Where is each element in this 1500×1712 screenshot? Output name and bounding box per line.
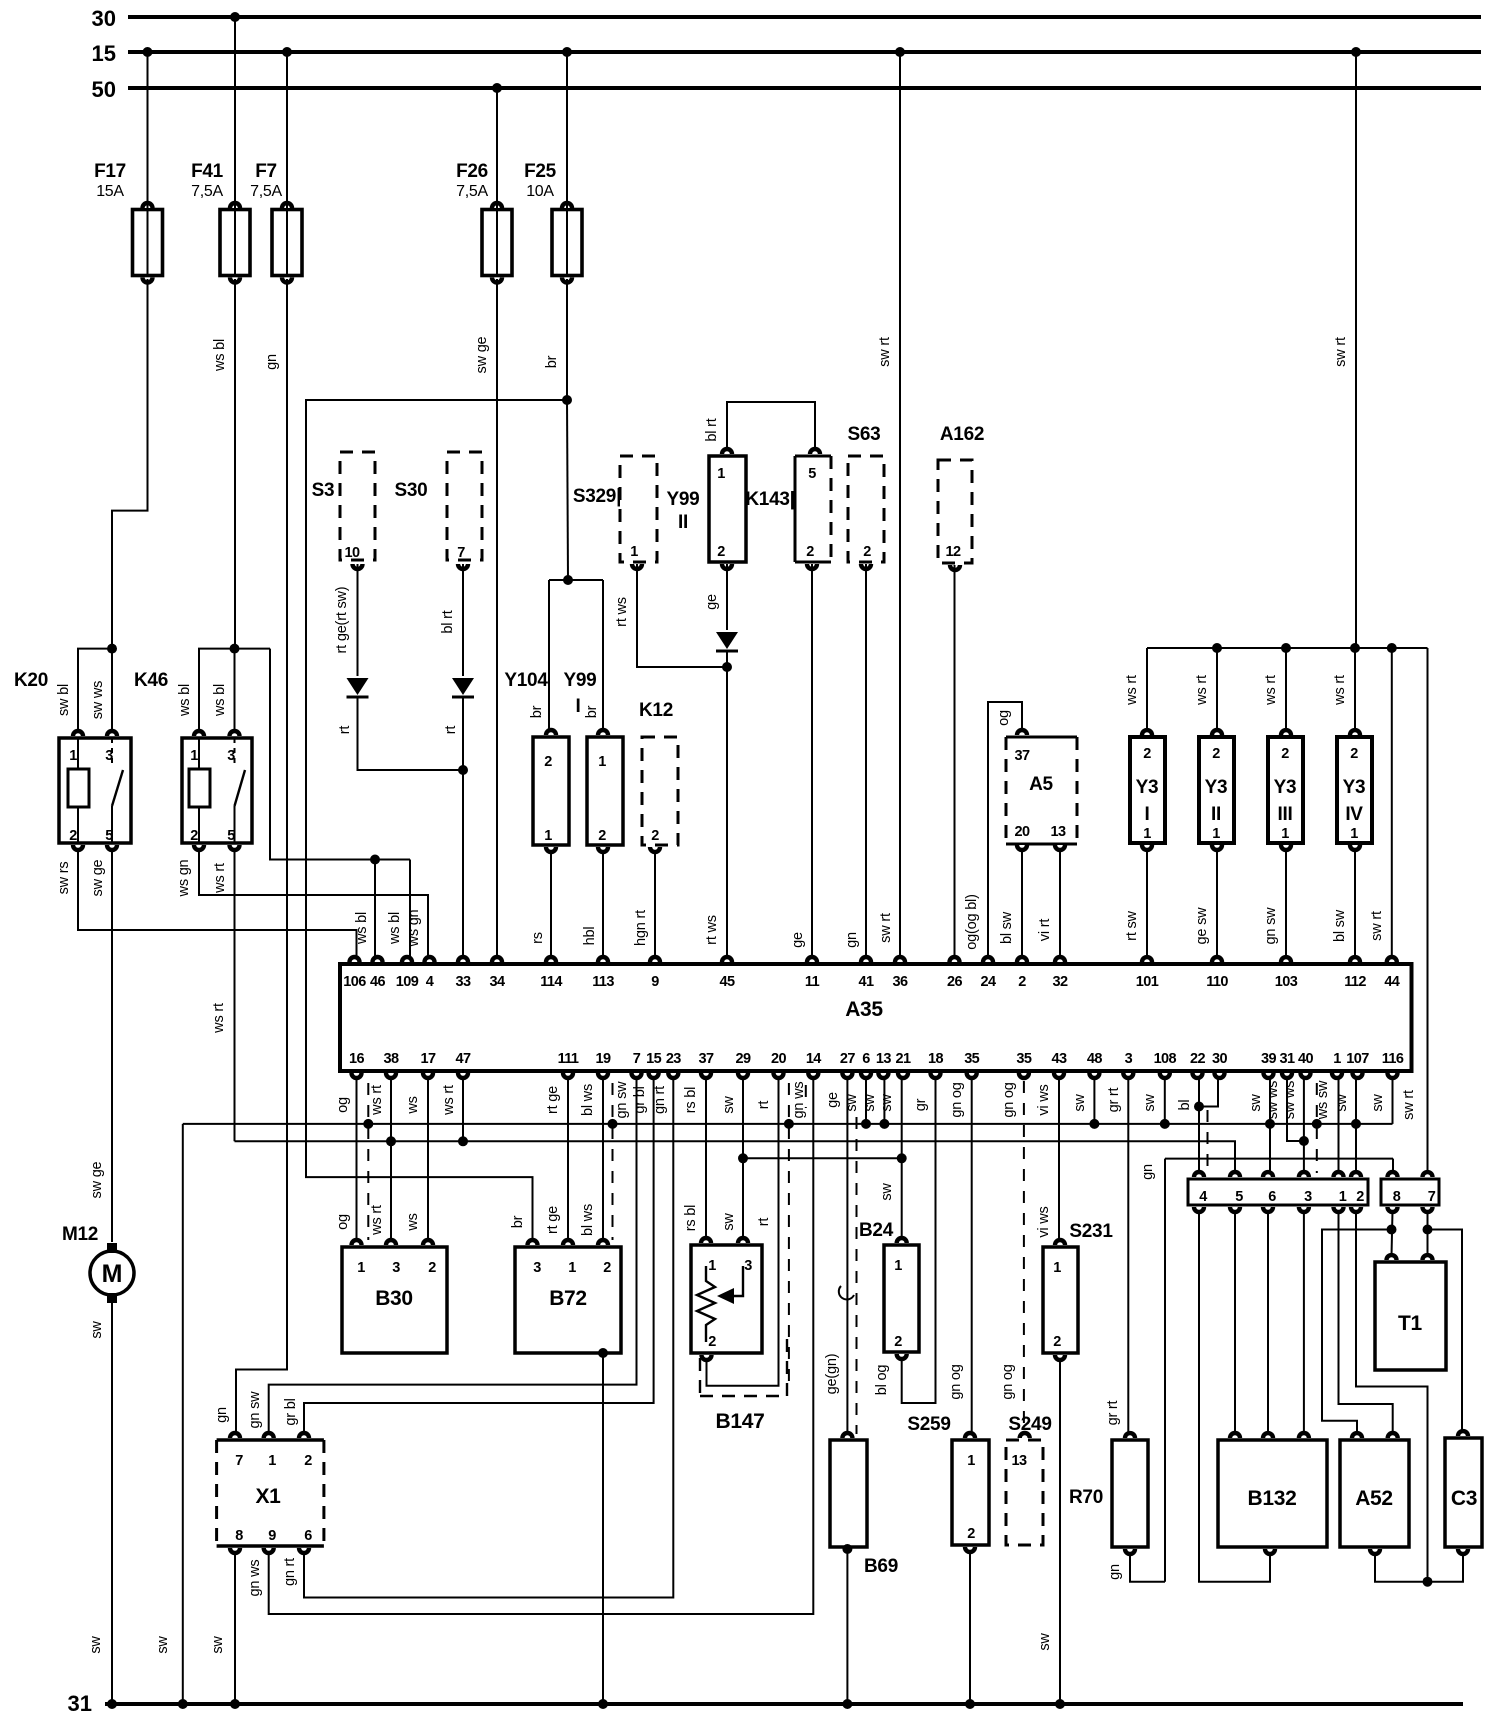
diode on S30 wire: [452, 678, 474, 695]
svg-text:sw bl: sw bl: [56, 684, 72, 716]
svg-text:hgn rt: hgn rt: [633, 910, 649, 946]
svg-text:gr rt: gr rt: [1105, 1400, 1121, 1425]
A35 bottom pin 27: [840, 1073, 854, 1080]
svg-text:45: 45: [720, 974, 735, 990]
svg-text:sw: sw: [1142, 1094, 1158, 1112]
svg-text:S30: S30: [395, 480, 428, 501]
node A52/C3 bottom junction: [1423, 1577, 1433, 1587]
svg-text:6: 6: [304, 1528, 312, 1544]
svg-text:23: 23: [666, 1051, 681, 1067]
svg-text:32: 32: [1053, 974, 1068, 990]
A35 bottom pin 1: [1330, 1073, 1344, 1080]
wire gn left drop to R70 bottom: [1164, 1159, 1166, 1582]
svg-text:20: 20: [771, 1051, 786, 1067]
wire S259 pin 2 to bus 31: [969, 1551, 971, 1704]
svg-text:gn ws: gn ws: [791, 1082, 807, 1119]
svg-text:5: 5: [1235, 1189, 1243, 1205]
A35 top pin 11: [805, 955, 819, 962]
svg-text:7: 7: [633, 1051, 641, 1067]
wire branch to A52 left pin: [1322, 1230, 1392, 1435]
svg-text:2: 2: [603, 1260, 611, 1276]
wire sw rt to A35 pin 44: [1391, 648, 1393, 958]
A35 top pin 24: [981, 955, 995, 962]
svg-text:9: 9: [268, 1528, 276, 1544]
bus 31: [105, 1702, 1463, 1706]
svg-text:1: 1: [717, 466, 725, 482]
svg-text:B69: B69: [864, 1556, 898, 1577]
svg-text:13: 13: [1051, 824, 1066, 840]
wire A35 pin 108 to sw rail: [1164, 1077, 1166, 1128]
A35 top pin 2: [1015, 955, 1029, 962]
svg-text:sw: sw: [1334, 1094, 1350, 1112]
svg-text:gn: gn: [264, 354, 280, 370]
svg-text:ws rt: ws rt: [369, 1085, 385, 1116]
capacitor C3: [1445, 1438, 1482, 1547]
svg-text:108: 108: [1154, 1051, 1177, 1067]
svg-text:rt ws: rt ws: [704, 915, 720, 945]
wire bracket to Y99I pin 1 (br): [568, 579, 603, 581]
K46 top bracket (ws bl): [199, 649, 270, 732]
wire A5 pin 37 to A35 pin 24 (og): [988, 702, 1022, 958]
svg-text:35: 35: [964, 1051, 979, 1067]
valve Y3 IV: [1337, 737, 1372, 843]
svg-text:A35: A35: [845, 998, 883, 1021]
svg-text:rt: rt: [337, 726, 353, 735]
svg-text:II: II: [678, 512, 688, 533]
svg-text:ge(gn): ge(gn): [824, 1354, 840, 1395]
svg-text:sw: sw: [879, 1094, 895, 1112]
wire K143 pin 2 to A35 pin 11 (ge): [811, 564, 813, 958]
svg-text:gr: gr: [913, 1098, 929, 1111]
svg-text:Y3: Y3: [1343, 777, 1366, 798]
svg-text:vi rt: vi rt: [1037, 919, 1053, 942]
svg-text:30: 30: [92, 6, 116, 31]
bus 50: [128, 86, 1481, 90]
svg-text:br: br: [529, 705, 545, 718]
svg-text:33: 33: [456, 974, 471, 990]
svg-text:rt ge: rt ge: [545, 1086, 561, 1114]
svg-text:C3: C3: [1451, 1487, 1477, 1510]
wire connector pin 1 to A52 right pin: [1339, 1211, 1393, 1434]
wire Y104 pin 1 to A35 pin 114 (rs): [550, 851, 552, 958]
wire B69 bottom to bus 31: [842, 1544, 852, 1554]
wire A35 pin 43 to S231 pin 1 (vi ws): [1058, 1077, 1060, 1241]
svg-text:B24: B24: [859, 1220, 894, 1241]
resistor R70: [1112, 1440, 1148, 1547]
A35 bottom pin 35: [1017, 1073, 1031, 1080]
svg-text:ws: ws: [405, 1096, 421, 1114]
A35 bottom pin 47: [456, 1073, 470, 1080]
svg-text:br: br: [544, 355, 560, 368]
switch S231: [1043, 1247, 1078, 1353]
svg-text:ws rt: ws rt: [441, 1085, 457, 1116]
svg-text:rt ge(rt sw): rt ge(rt sw): [334, 587, 350, 654]
A35 bottom pin 7: [629, 1073, 643, 1080]
svg-text:1: 1: [1053, 1260, 1061, 1276]
wire through fuse F26: [496, 210, 498, 276]
wire A35 pin 40 to connector pin 3 (sw ws): [1303, 1077, 1305, 1173]
svg-text:10: 10: [345, 545, 360, 561]
potentiometer B147: [691, 1245, 762, 1353]
A35 top pin 44: [1385, 955, 1399, 962]
wire Y3 I pin 2 (ws rt): [1146, 648, 1148, 731]
connector strip pins 8 7: [1381, 1179, 1439, 1205]
svg-text:21: 21: [896, 1051, 911, 1067]
svg-text:A5: A5: [1029, 774, 1053, 795]
wire Y3 IV pin 2 (ws rt): [1354, 648, 1356, 731]
svg-text:sw: sw: [88, 1636, 104, 1654]
svg-text:26: 26: [947, 974, 962, 990]
svg-text:41: 41: [859, 974, 874, 990]
unit A162: [938, 460, 972, 563]
A35 bottom pin 48: [1087, 1073, 1101, 1080]
svg-text:sw: sw: [210, 1636, 226, 1654]
wire A35 pin 27 to B69 (ge(gn)): [846, 1077, 848, 1434]
svg-text:sw ge: sw ge: [90, 859, 106, 896]
svg-text:4: 4: [426, 974, 434, 990]
wire K20 pin 2 to A35 pin 106 (sw rs): [78, 849, 357, 958]
svg-text:ge sw: ge sw: [1194, 907, 1210, 945]
wire F17 to K20: [112, 279, 148, 649]
svg-text:15: 15: [646, 1051, 661, 1067]
wire Y3 II pin 2 (ws rt): [1216, 648, 1218, 731]
wire A35 pin 48 to sw rail: [1093, 1077, 1095, 1128]
svg-text:og: og: [335, 1214, 351, 1230]
svg-text:2: 2: [1281, 746, 1289, 762]
svg-text:sw rt: sw rt: [878, 913, 894, 943]
svg-text:1: 1: [967, 1453, 975, 1469]
wire connector pin 6 to B132 pin middle: [1267, 1211, 1269, 1434]
wire A35 pin 7 to X1 pin 1 (gn sw): [269, 1077, 637, 1434]
sensor B30: [342, 1247, 447, 1353]
svg-text:2: 2: [1143, 746, 1151, 762]
wire br to Y104/Y99I bracket: [567, 400, 568, 580]
A35 top pin 9: [648, 955, 662, 962]
svg-text:vi ws: vi ws: [1036, 1084, 1052, 1115]
wire through fuse F41: [234, 210, 236, 276]
A35 bottom pin 35: [965, 1073, 979, 1080]
wire B72 bottom to bus 31: [598, 1348, 608, 1358]
svg-text:Y3: Y3: [1205, 777, 1228, 798]
svg-text:F26: F26: [456, 161, 488, 182]
wire to connector pin 7 (sw rt): [1427, 648, 1429, 1173]
svg-text:rt ge: rt ge: [545, 1206, 561, 1234]
svg-text:2: 2: [428, 1260, 436, 1276]
svg-text:2: 2: [1053, 1334, 1061, 1350]
svg-text:S63: S63: [848, 424, 881, 445]
A35 bottom pin 107: [1350, 1073, 1364, 1080]
svg-text:S329|: S329|: [573, 486, 621, 507]
rail sw short (B147/B24): [743, 1157, 902, 1159]
svg-text:47: 47: [456, 1051, 471, 1067]
svg-text:6: 6: [862, 1051, 870, 1067]
wire gn right drop to connector pin 8: [1392, 1159, 1394, 1173]
svg-text:17: 17: [421, 1051, 436, 1067]
svg-text:F7: F7: [255, 161, 277, 182]
connector pin 1: [1331, 1170, 1345, 1177]
A35 top pin 46: [370, 955, 384, 962]
wire F17 from bus 15: [147, 52, 149, 209]
svg-text:bl sw: bl sw: [1332, 909, 1348, 942]
connector pin 8: [1385, 1170, 1399, 1177]
A35 bottom pin 40: [1298, 1073, 1312, 1080]
svg-text:gn: gn: [214, 1407, 230, 1423]
diode on S3 wire: [347, 678, 369, 695]
A35 bottom pin 22: [1190, 1073, 1204, 1080]
svg-text:2: 2: [863, 544, 871, 560]
A35 top pin 36: [893, 955, 907, 962]
svg-text:1: 1: [1143, 826, 1151, 842]
svg-text:13: 13: [1012, 1453, 1027, 1469]
svg-text:16: 16: [349, 1051, 364, 1067]
A35 top pin 114: [544, 955, 558, 962]
svg-text:Y99: Y99: [564, 670, 597, 691]
A35 bottom pin 16: [349, 1073, 363, 1080]
svg-text:44: 44: [1384, 974, 1399, 990]
svg-text:103: 103: [1275, 974, 1298, 990]
svg-text:3: 3: [392, 1260, 400, 1276]
wire variant dashed at pin 27: [856, 1117, 858, 1434]
wire A35 pin 31 jog (sw ws): [1287, 1077, 1304, 1141]
svg-text:31: 31: [1280, 1051, 1295, 1067]
wire A35 pin 38 to B30 pin 3 (ws rt): [390, 1077, 392, 1241]
svg-text:II: II: [1211, 804, 1221, 825]
wire A35 pin 19 to B72 pin 2 (bl ws): [602, 1077, 604, 1241]
A35 top pin 112: [1348, 955, 1362, 962]
svg-text:ws bl: ws bl: [387, 912, 403, 945]
svg-text:B72: B72: [549, 1287, 587, 1310]
wire bracket to Y104 pin 2 (br): [549, 579, 568, 581]
A35 bottom pin 23: [666, 1073, 680, 1080]
wire A35 pin 29 to B147 pin 3 (sw): [742, 1077, 744, 1239]
svg-text:A162: A162: [940, 424, 984, 445]
wire A35 pin 1 to connector pin 1: [1338, 1077, 1340, 1173]
svg-text:ws rt: ws rt: [369, 1205, 385, 1236]
wire K46 pin 2 to A35 pin 4 (ws gn): [199, 849, 428, 958]
A35 top pin 33: [456, 955, 470, 962]
A35 bottom pin 19: [596, 1073, 610, 1080]
control unit A5: [1006, 736, 1077, 739]
svg-text:ws rt: ws rt: [211, 1003, 227, 1034]
valve Y104: [533, 737, 569, 845]
A35 top pin 4: [422, 955, 436, 962]
A35 bottom pin 15: [646, 1073, 660, 1080]
svg-text:1: 1: [598, 754, 606, 770]
wire A35 pin 107 to connector pin 2 (sw): [1355, 1077, 1357, 1173]
wire F25 from bus 15: [566, 52, 568, 209]
svg-text:br: br: [584, 705, 600, 718]
svg-text:A52: A52: [1355, 1487, 1393, 1510]
switch S63: [848, 456, 884, 562]
svg-text:gn sw: gn sw: [247, 1391, 263, 1429]
svg-text:bl: bl: [1177, 1100, 1193, 1111]
A35 top pin 41: [859, 955, 873, 962]
svg-text:20: 20: [1015, 824, 1030, 840]
svg-text:Y3: Y3: [1136, 777, 1159, 798]
svg-text:Y3: Y3: [1274, 777, 1297, 798]
svg-text:8: 8: [1393, 1189, 1401, 1205]
svg-text:1: 1: [568, 1260, 576, 1276]
wire through fuse F25: [566, 210, 568, 276]
svg-text:sw: sw: [1248, 1094, 1264, 1112]
svg-text:39: 39: [1261, 1051, 1276, 1067]
svg-text:35: 35: [1016, 1051, 1031, 1067]
wire A35 pin 35b to S249 pin 13 (gn og, dashed): [1023, 1081, 1025, 1434]
svg-text:ws rt: ws rt: [1263, 675, 1279, 706]
svg-text:101: 101: [1136, 974, 1159, 990]
switch S3: [340, 452, 375, 560]
svg-text:F25: F25: [524, 161, 557, 182]
svg-text:ge: ge: [790, 932, 806, 948]
B147 wiper arrow: [733, 1266, 743, 1296]
svg-text:37: 37: [1015, 748, 1030, 764]
A35 top pin 106: [347, 955, 361, 962]
svg-text:1: 1: [268, 1453, 276, 1469]
wire M12 to bus 31 (sw): [111, 1303, 113, 1704]
svg-text:2: 2: [69, 828, 77, 844]
rail sw (ground collector): [183, 1123, 1393, 1125]
svg-text:8: 8: [235, 1528, 243, 1544]
svg-text:110: 110: [1206, 974, 1228, 990]
svg-text:sw: sw: [879, 1183, 895, 1201]
svg-text:2: 2: [894, 1334, 902, 1350]
svg-text:Y99: Y99: [667, 489, 700, 510]
valve Y3 II: [1199, 737, 1234, 843]
svg-text:gn rt: gn rt: [282, 1558, 298, 1586]
connector pin 2: [1349, 1170, 1363, 1177]
wire Y3 IV pin 1 to A35 pin 112 (bl sw): [1354, 849, 1356, 958]
svg-text:1: 1: [1333, 1051, 1341, 1067]
svg-text:1: 1: [1212, 826, 1220, 842]
svg-text:30: 30: [1212, 1051, 1227, 1067]
svg-text:10A: 10A: [526, 183, 554, 200]
svg-text:ws rt: ws rt: [212, 863, 228, 894]
svg-text:rt: rt: [756, 1101, 772, 1110]
wire connector pin 5 to B132 pin left: [1234, 1211, 1236, 1434]
wire A35 pin 6 to sw rail: [865, 1077, 867, 1128]
svg-text:5: 5: [808, 466, 816, 482]
svg-text:B132: B132: [1247, 1487, 1296, 1510]
svg-text:116: 116: [1382, 1051, 1404, 1067]
svg-text:107: 107: [1346, 1051, 1369, 1067]
svg-text:1: 1: [69, 748, 77, 764]
svg-text:3: 3: [1304, 1189, 1312, 1205]
node diode/S329 junction: [722, 662, 732, 672]
wire A5 pin 20 to A35 pin 2 (bl sw): [1021, 849, 1023, 958]
svg-text:K143|: K143|: [745, 489, 794, 510]
svg-text:1: 1: [894, 1258, 902, 1274]
svg-text:ge: ge: [825, 1092, 841, 1108]
A35 bottom pin 13: [876, 1073, 890, 1080]
sensor B24: [884, 1245, 919, 1352]
svg-text:sw ge: sw ge: [474, 336, 490, 373]
wire A35 pin 37 to B147 pin 1 (rs bl): [705, 1077, 707, 1239]
A35 top pin 45: [720, 955, 734, 962]
wire branch to C3 top: [1428, 1230, 1463, 1433]
svg-text:ws rt: ws rt: [1194, 675, 1210, 706]
wire A35 pin 20 to B147 pin 2 (rt): [707, 1077, 779, 1386]
wire through fuse F17: [147, 210, 149, 276]
connector pin 7: [1420, 1170, 1434, 1177]
wire Y99II pin 2 (ge): [726, 564, 728, 630]
svg-text:S249: S249: [1008, 1414, 1051, 1435]
svg-text:bl rt: bl rt: [440, 610, 456, 633]
svg-text:2: 2: [1350, 746, 1358, 762]
svg-text:hbl: hbl: [582, 927, 598, 946]
svg-text:sw: sw: [721, 1213, 737, 1231]
wire rail sw left drop to bus 31: [182, 1124, 184, 1704]
A35 bottom pin 30: [1212, 1073, 1226, 1080]
svg-text:3: 3: [1125, 1051, 1133, 1067]
svg-text:M: M: [102, 1260, 123, 1288]
svg-text:43: 43: [1052, 1051, 1067, 1067]
svg-text:IV: IV: [1345, 804, 1363, 825]
svg-text:sw: sw: [1370, 1094, 1386, 1112]
svg-text:bl ws: bl ws: [580, 1204, 596, 1236]
A35 bottom pin 17: [421, 1073, 435, 1080]
sensor B72: [515, 1247, 621, 1353]
relay K12: [642, 737, 678, 845]
A35 bottom pin 38: [384, 1073, 398, 1080]
svg-text:og(og bl): og(og bl): [964, 894, 980, 949]
wire Y99I pin 2 to A35 pin 113 (hbl): [602, 851, 604, 958]
svg-text:9: 9: [651, 974, 659, 990]
svg-text:I: I: [1145, 804, 1150, 825]
diode below Y99 II: [716, 632, 738, 649]
svg-text:gn: gn: [1140, 1164, 1156, 1180]
svg-text:ws bl: ws bl: [212, 684, 228, 717]
valve Y99 II: [709, 456, 746, 562]
switch S249: [1006, 1440, 1043, 1545]
svg-text:gn og: gn og: [948, 1364, 964, 1399]
svg-text:7,5A: 7,5A: [191, 183, 223, 200]
A35 bottom pin 108: [1158, 1073, 1172, 1080]
wire A35 pin 17 to B30 pin 2 (ws): [427, 1077, 429, 1241]
svg-text:K20: K20: [14, 670, 48, 691]
A35 bottom pin 29: [736, 1073, 750, 1080]
rail gn (R70 to connector pin 8): [1165, 1158, 1393, 1160]
node br bracket: [563, 575, 573, 585]
A35 top pin 113: [596, 955, 610, 962]
svg-text:S231: S231: [1069, 1221, 1113, 1242]
svg-text:rt ws: rt ws: [614, 597, 630, 627]
svg-text:gn og: gn og: [1001, 1082, 1017, 1117]
connector X1: [217, 1438, 324, 1442]
wire K20 pin 5 to M12 (sw ge): [111, 849, 113, 1242]
svg-text:1: 1: [190, 748, 198, 764]
switch S30: [447, 452, 482, 560]
valve Y99 I: [587, 737, 623, 845]
wire A35 pin 111 to B72 pin 1 (rt ge): [567, 1077, 569, 1241]
K46 contact: [234, 738, 236, 766]
svg-text:bl ws: bl ws: [580, 1084, 596, 1116]
connector pin 6: [1261, 1170, 1275, 1177]
A35 bottom pin 14: [806, 1073, 820, 1080]
svg-text:br: br: [510, 1215, 526, 1228]
connector pin 3: [1297, 1170, 1311, 1177]
A35 bottom pin 31: [1280, 1073, 1294, 1080]
svg-text:1: 1: [1350, 826, 1358, 842]
svg-text:sw: sw: [155, 1636, 171, 1654]
svg-text:34: 34: [490, 974, 505, 990]
svg-text:sw: sw: [721, 1096, 737, 1114]
wire A35 pin 22 to connector pin 4 (bl): [1198, 1077, 1200, 1173]
svg-text:vi ws: vi ws: [1036, 1206, 1052, 1237]
svg-text:rs: rs: [530, 932, 546, 944]
wire A5 pin 13 to A35 pin 32 (vi rt): [1059, 849, 1061, 958]
svg-text:ws bl: ws bl: [354, 912, 370, 945]
svg-text:2: 2: [1212, 746, 1220, 762]
